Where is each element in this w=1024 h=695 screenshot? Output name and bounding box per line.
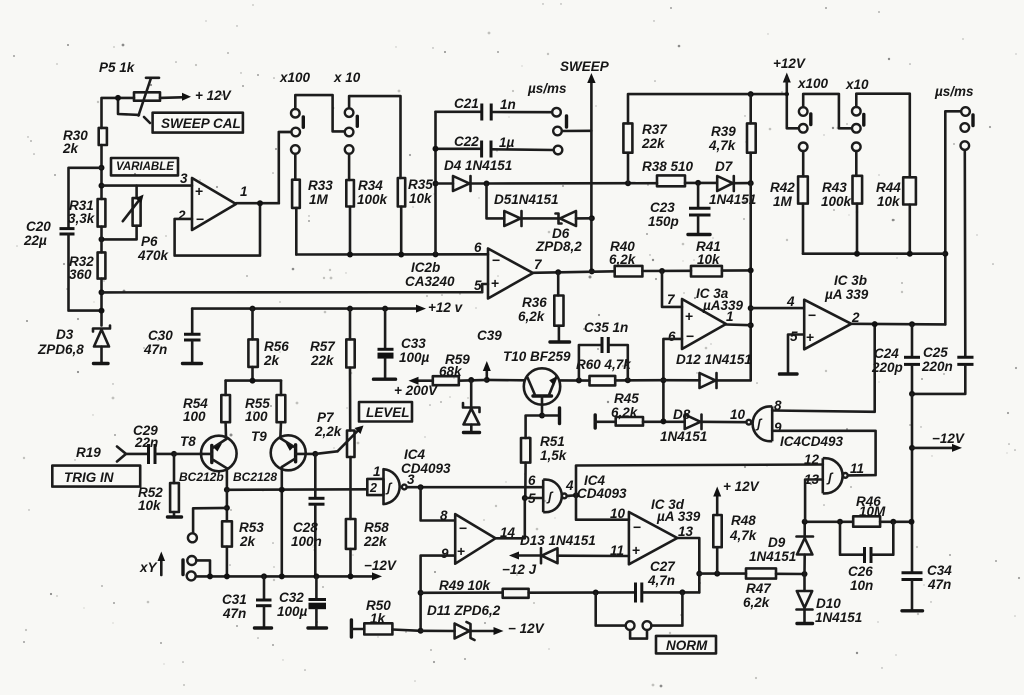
node comparator pin8 branch xyxy=(418,484,424,490)
svg-text:LEVEL: LEVEL xyxy=(366,405,410,420)
svg-text:VARIABLE: VARIABLE xyxy=(116,161,174,173)
zener D6 xyxy=(535,211,592,254)
svg-text:+12 v: +12 v xyxy=(428,300,464,315)
svg-text:6,2k: 6,2k xyxy=(609,252,637,267)
svg-text:10M: 10M xyxy=(859,504,886,519)
svg-text:+: + xyxy=(806,329,814,345)
op-amp IC2a xyxy=(192,178,236,230)
svg-text:1: 1 xyxy=(373,464,381,479)
wire main left vertical R30 to R31 xyxy=(100,145,103,199)
svg-text:6,2k: 6,2k xyxy=(743,595,771,610)
svg-text:x10: x10 xyxy=(845,77,869,92)
capacitor C24 xyxy=(871,324,920,394)
svg-text:68k: 68k xyxy=(439,364,463,379)
node pin6 vertical on D8 line xyxy=(660,418,666,424)
wire comparator pin9 down xyxy=(421,556,456,631)
wire -12V bottom rail xyxy=(196,572,382,580)
svg-text:µA339: µA339 xyxy=(702,298,744,313)
svg-text:4: 4 xyxy=(786,294,795,309)
resistor R55 xyxy=(245,381,285,437)
node R35 on rail xyxy=(398,252,404,258)
transistor T10 xyxy=(487,349,571,405)
wire main vertical R31-R32 xyxy=(100,227,103,253)
svg-text:−: − xyxy=(686,328,694,344)
svg-text:NORM: NORM xyxy=(666,638,708,653)
svg-text:− 12V: − 12V xyxy=(508,621,545,636)
wire R40 to R41 xyxy=(642,269,691,272)
svg-text:+: + xyxy=(195,183,203,199)
label box VARIABLE xyxy=(111,158,178,175)
svg-text:−: − xyxy=(459,520,467,536)
node T9 collector on rail xyxy=(279,573,285,579)
resistor R57 xyxy=(310,309,355,431)
resistor R52 xyxy=(138,454,182,517)
svg-text:IC 3b: IC 3b xyxy=(834,273,867,288)
potentiometer P5 xyxy=(134,78,160,116)
wire +12V mid rail xyxy=(192,305,426,313)
wire comparator pin8 xyxy=(421,487,456,520)
node IC3d output on R47 line xyxy=(696,571,702,577)
part label IC2b CA3240 xyxy=(405,260,455,289)
node C21 vertical on rail xyxy=(433,251,439,257)
node C26 left xyxy=(837,519,843,525)
svg-text:10k: 10k xyxy=(697,252,721,267)
node NORM right stub xyxy=(679,589,685,595)
svg-text:2,2k: 2,2k xyxy=(314,424,343,439)
svg-text:C24: C24 xyxy=(874,346,899,361)
transistor T8 xyxy=(180,434,237,490)
node pin8 riser on output xyxy=(872,321,878,327)
svg-text:4,7n: 4,7n xyxy=(647,573,675,588)
wire IC3a pin7 from R40/R41 node xyxy=(662,271,682,307)
svg-text:22k: 22k xyxy=(641,136,666,151)
wire us/ms bottom contact to C25 xyxy=(963,150,966,356)
comparator IC3c xyxy=(455,514,495,564)
svg-text:IC4: IC4 xyxy=(404,447,426,462)
wire IC4b output up and across to IC4d pin12 xyxy=(576,465,823,496)
svg-text:220n: 220n xyxy=(921,359,953,374)
resistor R54 xyxy=(183,381,230,438)
svg-text:1k: 1k xyxy=(370,611,387,626)
svg-text:3,3k: 3,3k xyxy=(68,211,96,226)
svg-text:R53: R53 xyxy=(239,520,264,535)
svg-text:R58: R58 xyxy=(364,520,389,535)
svg-text:+ 200V: + 200V xyxy=(394,383,438,398)
wire IC4a output to IC4b pin6 xyxy=(407,486,544,489)
resistor R35 xyxy=(398,177,433,255)
transistor T9 xyxy=(251,429,306,576)
wire x100r top to x10r middle xyxy=(803,94,851,128)
svg-text:D9: D9 xyxy=(768,535,786,550)
svg-text:D3: D3 xyxy=(56,327,74,342)
resistor R33 xyxy=(292,154,333,255)
svg-text:C35 1n: C35 1n xyxy=(584,320,628,335)
selector switch us/ms left xyxy=(552,108,566,154)
svg-text:C23: C23 xyxy=(650,200,675,215)
svg-text:C33: C33 xyxy=(401,336,426,351)
wire right corner riser xyxy=(945,111,961,324)
node pin13/D9 junction xyxy=(802,519,808,525)
wire P5 right to +12V arrow xyxy=(160,93,191,101)
potentiometer P7 xyxy=(314,410,364,519)
wire x10 top contact to R35 xyxy=(349,96,400,178)
svg-text:2k: 2k xyxy=(263,353,281,368)
svg-text:6: 6 xyxy=(474,240,482,255)
svg-text:CD4093: CD4093 xyxy=(401,461,451,476)
svg-text:xY: xY xyxy=(139,560,159,575)
resistor R56 xyxy=(248,309,289,381)
node C29/R52/T8 base junction xyxy=(171,451,177,457)
node C20 branch top xyxy=(99,165,105,171)
node R53 bottom on rail xyxy=(224,573,230,579)
capacitor C28 xyxy=(291,454,325,577)
node sweep/output-line junction xyxy=(589,268,595,274)
svg-text:R45: R45 xyxy=(614,391,639,406)
svg-text:100µ: 100µ xyxy=(277,604,308,619)
wire C21/C22/D4 vertical xyxy=(434,112,437,255)
node sweep/D5 junction xyxy=(589,215,595,221)
label box SWEEP CAL xyxy=(153,113,243,133)
svg-text:R47: R47 xyxy=(746,581,772,596)
svg-text:D8: D8 xyxy=(673,407,691,422)
node R44 on rail xyxy=(907,251,913,257)
svg-text:BC2128: BC2128 xyxy=(233,470,277,484)
svg-text:D13 1N4151: D13 1N4151 xyxy=(520,533,596,548)
svg-text:C30: C30 xyxy=(148,328,173,343)
node IC3a pin7 tap xyxy=(659,268,665,274)
switch XY contacts xyxy=(183,556,210,580)
svg-text:+ 12V: + 12V xyxy=(723,479,760,494)
wire x100 top contact to x10 middle contact xyxy=(295,95,345,131)
wire R41 to main vertical xyxy=(722,269,751,272)
svg-text:5: 5 xyxy=(474,278,482,293)
resistor R46 xyxy=(853,494,911,527)
svg-text:1M: 1M xyxy=(773,194,793,209)
svg-text:4: 4 xyxy=(565,478,574,493)
svg-text:10: 10 xyxy=(730,407,746,422)
part label IC3a uA339 xyxy=(696,286,744,313)
stub terminal right of T10 emitter xyxy=(542,408,560,424)
svg-text:1: 1 xyxy=(240,184,248,199)
wire P5 wiper tie-back loop xyxy=(118,98,139,115)
wire main mid vertical (R39 node to D12 corner) xyxy=(749,183,752,380)
svg-text:2: 2 xyxy=(369,481,377,495)
svg-text:C20: C20 xyxy=(26,219,51,234)
svg-text:SWEEP: SWEEP xyxy=(560,59,610,74)
svg-text:10n: 10n xyxy=(850,578,873,593)
resistor R47 xyxy=(743,568,805,610)
resistor R34 xyxy=(346,154,388,255)
svg-text:C32: C32 xyxy=(279,590,304,605)
svg-text:µA 339: µA 339 xyxy=(824,287,869,302)
svg-text:1N4151: 1N4151 xyxy=(709,192,756,207)
node P6 bottom junction xyxy=(99,236,105,242)
resistor R48 xyxy=(713,487,758,574)
node R57 on +12V rail xyxy=(347,306,353,312)
svg-text:22k: 22k xyxy=(363,534,388,549)
svg-text:−: − xyxy=(492,252,500,268)
node R43 on rail xyxy=(854,251,860,257)
node R56 on +12V rail xyxy=(250,306,256,312)
svg-text:R48: R48 xyxy=(731,513,756,528)
svg-text:TRIG IN: TRIG IN xyxy=(64,470,114,485)
node -12V arrow tap xyxy=(909,445,915,451)
node IC3b pin4 tap xyxy=(748,305,754,311)
svg-text:5: 5 xyxy=(528,491,536,506)
svg-text:220p: 220p xyxy=(871,360,903,375)
node IC3a output on vertical xyxy=(748,322,754,328)
svg-text:R34: R34 xyxy=(358,178,383,193)
svg-text:T9: T9 xyxy=(251,429,267,444)
resistor R59 xyxy=(409,352,487,385)
svg-text:1N4151: 1N4151 xyxy=(815,610,862,625)
svg-text:3: 3 xyxy=(180,171,188,186)
wire IC2b output line xyxy=(533,271,615,273)
wire D4 line to R37/R38 xyxy=(487,182,658,185)
node C24/C25 tie xyxy=(909,391,915,397)
resistor R45 xyxy=(595,391,685,428)
resistor R60 xyxy=(561,357,664,385)
zener D11 xyxy=(421,603,504,640)
svg-text:P6: P6 xyxy=(141,234,158,249)
svg-text:D11 ZPD6,2: D11 ZPD6,2 xyxy=(427,603,501,618)
arrow C39 xyxy=(477,328,502,380)
wire collector line to gate IC4a pin2 xyxy=(227,488,367,491)
wire IC4b output down to IC3d pin10 xyxy=(576,495,629,519)
svg-text:−12 J: −12 J xyxy=(502,562,537,577)
wire junction to P7 wiper xyxy=(315,451,337,454)
wire IC3a output to vertical xyxy=(726,323,751,326)
svg-text:R38 510: R38 510 xyxy=(642,159,694,174)
svg-text:SWEEP CAL: SWEEP CAL xyxy=(161,116,241,131)
svg-text:2k: 2k xyxy=(62,141,80,156)
wire x10r top to R44 xyxy=(856,94,910,178)
svg-text:R43: R43 xyxy=(822,180,847,195)
wire main vertical R32 to D3 xyxy=(100,279,103,326)
svg-text:9: 9 xyxy=(441,546,449,561)
capacitor C25 xyxy=(912,345,974,394)
svg-text:C31: C31 xyxy=(222,592,247,607)
node R46 line on main vertical xyxy=(909,519,915,525)
wire R54/R55 top tie xyxy=(226,379,281,382)
node pin3 wire junction xyxy=(99,183,105,189)
svg-text:C27: C27 xyxy=(650,559,676,574)
svg-text:100k: 100k xyxy=(821,194,853,209)
svg-text:10: 10 xyxy=(610,506,626,521)
node C24 on output xyxy=(909,321,915,327)
svg-text:+: + xyxy=(685,308,693,324)
diode D13 xyxy=(509,533,629,563)
node D9/D10/R47 junction xyxy=(802,571,808,577)
resistor R30 xyxy=(62,128,107,156)
svg-text:4,7k: 4,7k xyxy=(708,138,737,153)
svg-text:R44: R44 xyxy=(876,180,901,195)
svg-text:µs/ms: µs/ms xyxy=(934,84,974,99)
svg-text:4,7k: 4,7k xyxy=(729,528,758,543)
capacitor C32 xyxy=(277,576,327,628)
nand gate IC4d xyxy=(823,458,848,493)
svg-text:−: − xyxy=(808,307,816,323)
svg-text:+: + xyxy=(632,542,640,558)
node P5 left junction xyxy=(115,95,121,101)
node NORM left stub xyxy=(593,590,599,596)
node bus junction xyxy=(99,289,105,295)
part label IC4 CD4093 (b) xyxy=(577,473,627,501)
wire IC4c pin8 to IC3b output xyxy=(772,325,875,412)
svg-text:12: 12 xyxy=(804,452,820,467)
node zener tap xyxy=(468,377,474,383)
svg-text:22µ: 22µ xyxy=(23,233,47,248)
svg-text:47n: 47n xyxy=(143,342,167,357)
svg-text:R60 4,7k: R60 4,7k xyxy=(576,357,632,372)
wire output up to x100 switch xyxy=(279,132,292,203)
svg-text:+: + xyxy=(457,543,465,559)
capacitor C21 xyxy=(436,96,553,121)
test point stub with open circle xyxy=(188,508,227,542)
op-amp IC3a xyxy=(682,299,726,349)
node C35 left stub xyxy=(576,377,582,383)
node R37 bottom xyxy=(625,180,631,186)
part label IC3b uA339 xyxy=(824,273,869,302)
node C33 on +12V rail xyxy=(382,306,388,312)
wire IC2b pin5 bus xyxy=(102,284,488,292)
capacitor C23 xyxy=(648,183,711,235)
nand gate IC4c (mirrored) xyxy=(746,406,772,441)
svg-text:R56: R56 xyxy=(264,339,289,354)
svg-text:µA 339: µA 339 xyxy=(656,509,701,524)
svg-text:R35: R35 xyxy=(408,177,433,192)
comparator IC3b xyxy=(804,300,851,350)
svg-text:22k: 22k xyxy=(310,353,335,368)
svg-text:+: + xyxy=(491,275,499,291)
wire switch middle to sweep line xyxy=(562,130,592,133)
svg-text:µs/ms: µs/ms xyxy=(527,81,567,96)
svg-text:−: − xyxy=(633,519,641,535)
node R49 branch xyxy=(418,590,424,596)
svg-text:100µ: 100µ xyxy=(399,350,430,365)
svg-text:C22: C22 xyxy=(454,134,479,149)
wire T9 base to P7 junction xyxy=(306,453,316,456)
wire SWEEP arrow vertical xyxy=(587,73,595,271)
resistor R50 xyxy=(351,598,420,637)
node C26 right xyxy=(890,519,896,525)
capacitor C30 xyxy=(143,309,202,364)
node test stub on R53 xyxy=(224,505,230,511)
node R50/D11 junction xyxy=(418,628,424,634)
wire P5 left terminal to R30 xyxy=(102,98,135,128)
node R56 bottom xyxy=(250,378,256,384)
svg-text:R57: R57 xyxy=(310,339,336,354)
resistor R49 xyxy=(421,578,529,598)
svg-text:1,5k: 1,5k xyxy=(540,448,568,463)
resistor R38 xyxy=(642,159,694,186)
svg-text:100n: 100n xyxy=(291,534,322,549)
node T8 collector / R53 junction xyxy=(224,487,230,493)
wire R38 to D7 xyxy=(685,182,717,185)
resistor R43 xyxy=(821,151,862,254)
zener under R59 xyxy=(463,380,480,433)
node R41 on vertical xyxy=(748,267,754,273)
svg-text:22n: 22n xyxy=(134,435,158,450)
svg-text:10k: 10k xyxy=(138,498,162,513)
resistor R39 xyxy=(708,94,756,183)
node R39 top xyxy=(748,91,754,97)
node D4 tap xyxy=(433,181,439,187)
node R38/D7/R39 junction xyxy=(748,180,754,186)
potentiometer P6 xyxy=(102,186,170,263)
svg-text:C21: C21 xyxy=(454,96,479,111)
svg-text:R37: R37 xyxy=(642,122,668,137)
svg-text:1n: 1n xyxy=(500,97,516,112)
op-amp IC2b xyxy=(488,249,533,299)
node R58 bottom on rail xyxy=(348,573,354,579)
node C39 tap xyxy=(484,377,490,383)
svg-text:1N4151: 1N4151 xyxy=(660,429,707,444)
wire IC2b pin6 rail xyxy=(296,253,488,256)
svg-text:R19: R19 xyxy=(76,445,101,460)
node R36 tap xyxy=(555,269,561,275)
svg-text:6,2k: 6,2k xyxy=(518,309,546,324)
capacitor C22 xyxy=(436,134,554,158)
resistor R44 xyxy=(876,177,916,253)
wire IC3b pin5 to ground stub xyxy=(780,335,805,375)
label box TRIG IN xyxy=(52,466,140,487)
svg-text:D12 1N4151: D12 1N4151 xyxy=(676,352,752,367)
svg-text:+12V: +12V xyxy=(773,56,806,71)
resistor R32 xyxy=(69,252,105,282)
nand gate IC4b xyxy=(543,480,566,513)
arrow XY up xyxy=(158,552,166,576)
diode D12 xyxy=(663,352,751,388)
wire R47 line xyxy=(699,572,746,575)
wire x100 middle contact to output node xyxy=(279,131,292,134)
node IC2a output junction xyxy=(257,200,263,206)
svg-text:10k: 10k xyxy=(877,194,901,209)
wire R42/R43/R44 bottom rail xyxy=(803,252,945,255)
node C31 on rail xyxy=(261,573,267,579)
wire IC3d output down to R47 line xyxy=(677,538,699,592)
svg-text:R51: R51 xyxy=(540,434,565,449)
capacitor C27 xyxy=(529,559,700,603)
capacitor C20 xyxy=(23,168,102,311)
node C20 bottom junction xyxy=(99,308,105,314)
node T9 base / C28 / wiper junction xyxy=(312,451,318,457)
svg-text:CD4093: CD4093 xyxy=(577,486,627,501)
wire IC4b output junction xyxy=(567,494,576,497)
wire IC3b output xyxy=(851,322,945,325)
wire R46 line xyxy=(805,520,854,523)
capacitor C29 xyxy=(126,423,174,464)
wire -12V main vertical xyxy=(911,394,914,572)
node R34 on rail xyxy=(347,252,353,258)
wire IC4b pin5 xyxy=(525,497,543,500)
diode D5 xyxy=(494,192,559,226)
node IC4b output tee xyxy=(573,492,579,498)
selector switch x10 right xyxy=(845,77,869,151)
svg-text:1µ: 1µ xyxy=(499,135,515,150)
svg-text:x 10: x 10 xyxy=(333,70,361,85)
part label IC4 CD4093 (a) xyxy=(401,447,451,476)
svg-text:D51N4151: D51N4151 xyxy=(494,192,559,207)
resistor R51 xyxy=(521,434,568,498)
resistor R40 xyxy=(609,239,642,277)
node R51/pin5/pin14 junction xyxy=(522,495,528,501)
svg-text:BC212b: BC212b xyxy=(179,470,224,484)
svg-text:ZPD8,2: ZPD8,2 xyxy=(535,239,582,254)
capacitor C35 xyxy=(579,320,628,380)
svg-text:R36: R36 xyxy=(522,295,547,310)
svg-text:6,2k: 6,2k xyxy=(611,405,639,420)
